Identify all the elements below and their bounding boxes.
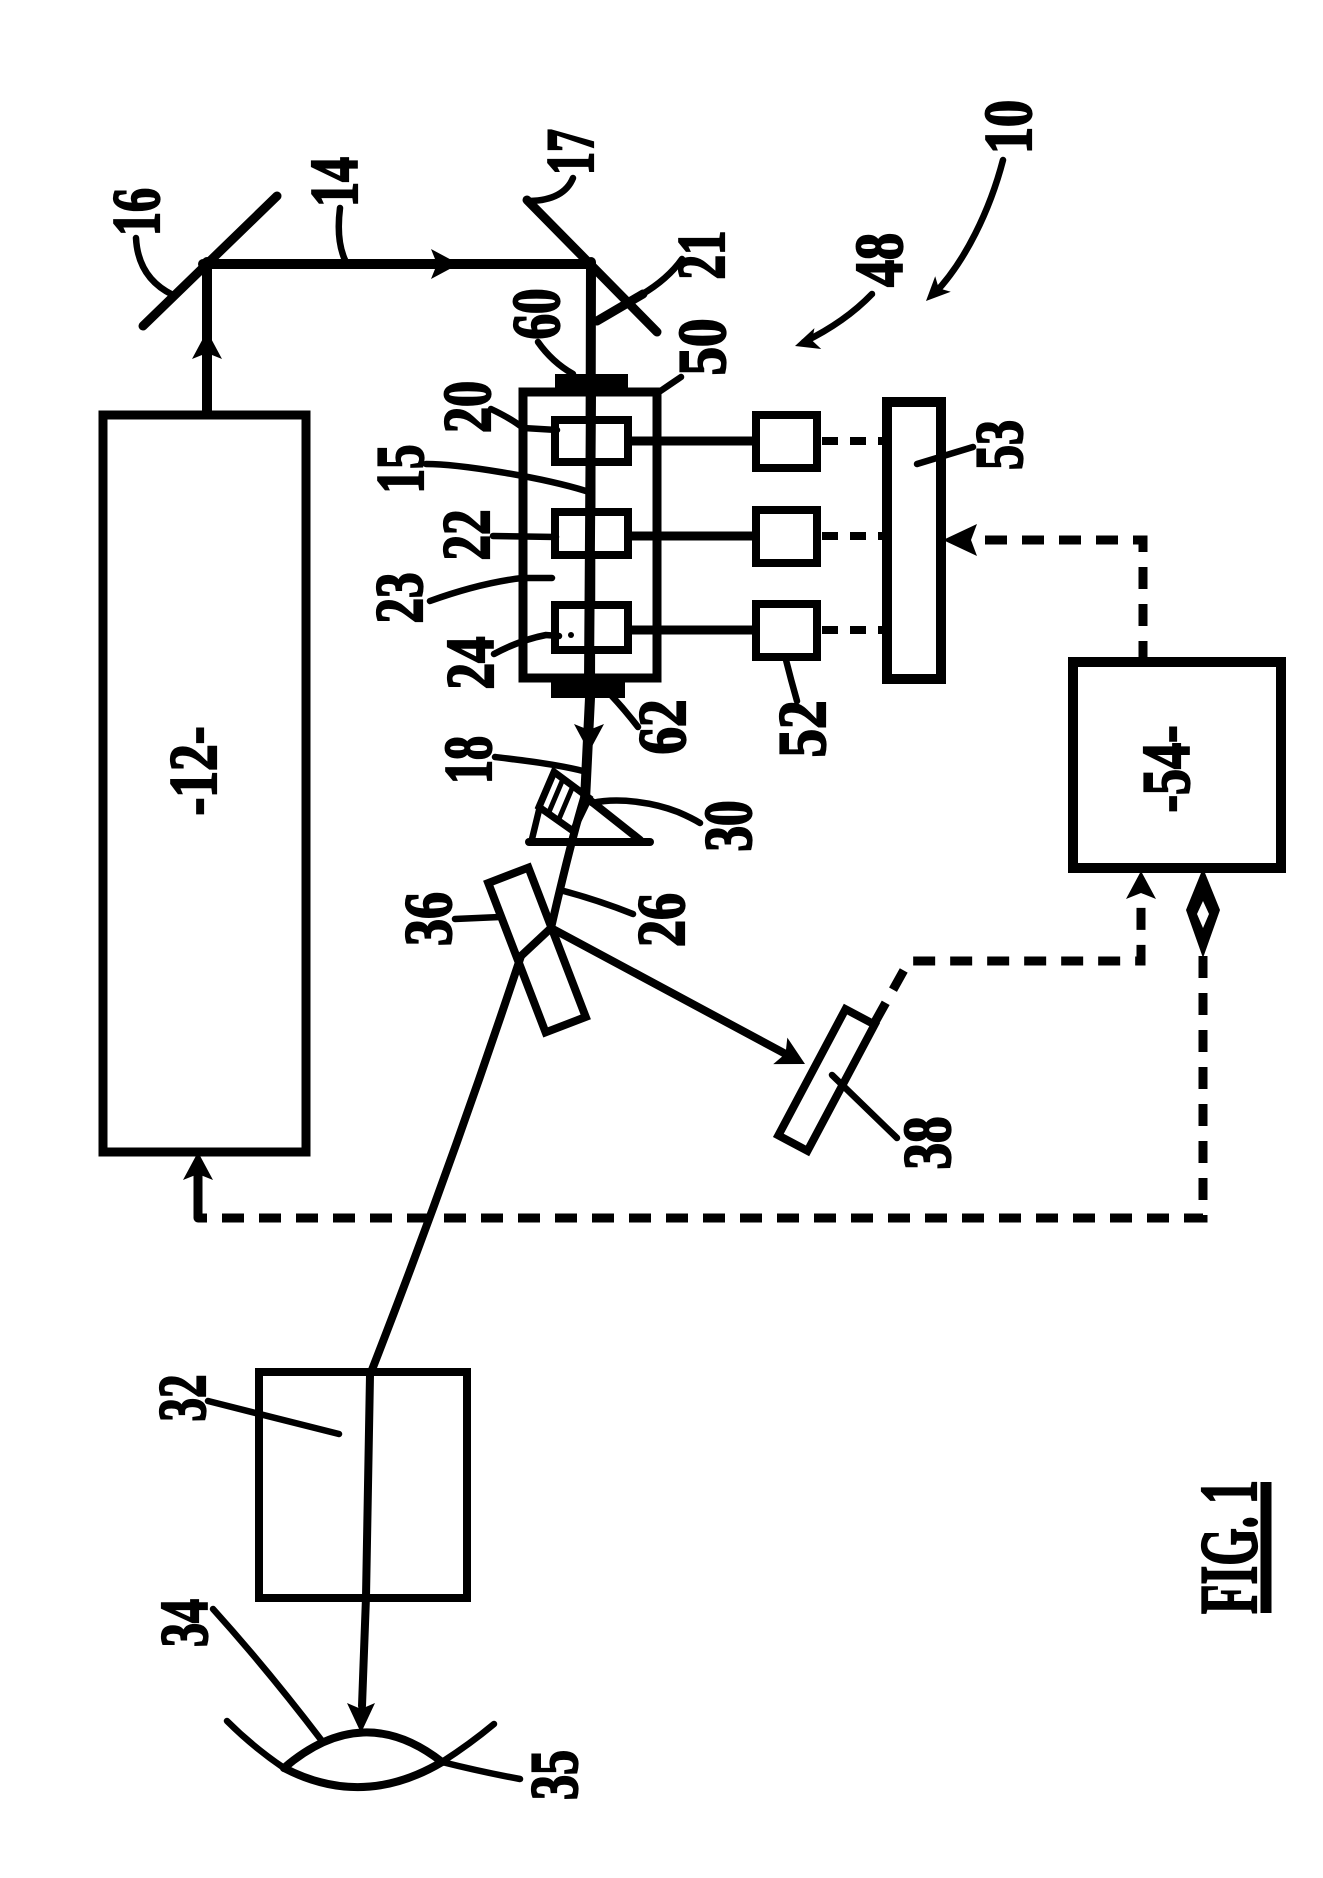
controller bar 53 [887, 402, 941, 679]
wire: horizontal beam 14 from mirror 16 to mirror 17 [203, 259, 591, 269]
svg-text:23: 23 [361, 573, 437, 624]
leader 62 [610, 694, 638, 727]
wire: arrow into laser 12 bottom [194, 1163, 203, 1218]
svg-text:38: 38 [889, 1117, 965, 1170]
svg-text:48: 48 [841, 233, 917, 287]
mirror 21 [597, 294, 643, 321]
leader 52 [786, 660, 797, 701]
optics box 32 [259, 1372, 467, 1598]
detector 38 [778, 1009, 874, 1151]
eye 35: lower lid arc [284, 1762, 442, 1787]
wire: beam through cells [589, 392, 591, 681]
leader 30 [592, 801, 700, 823]
svg-text:17: 17 [532, 129, 608, 175]
leader 36 [455, 917, 500, 919]
driver box (top) of 52 [756, 415, 817, 468]
svg-text:-54-: -54- [1128, 726, 1204, 813]
wire: beam exits assembly downward [574, 724, 604, 752]
svg-text:50: 50 [664, 319, 740, 376]
driver box (bottom) of 52 [756, 604, 817, 657]
mirror 17 [527, 200, 657, 332]
gain cell 22 [555, 512, 628, 555]
leader 15 [426, 464, 586, 491]
leader 14 [339, 208, 345, 260]
svg-text:10: 10 [970, 100, 1046, 154]
leader 16 [136, 238, 173, 295]
svg-text:FIG. 1: FIG. 1 [1183, 1480, 1274, 1614]
leader 34 [213, 1609, 322, 1741]
diamond double arrow at 54 bottom [1186, 868, 1220, 958]
leader 32 [208, 1401, 339, 1434]
wire: cell 20 drive line [629, 437, 756, 446]
svg-text:30: 30 [690, 801, 766, 852]
wire: beam down through laser head assembly [585, 262, 591, 800]
wire: beam 36 down to optics 32 [370, 956, 521, 1375]
leader 24 [494, 635, 559, 654]
leader 17 [530, 178, 573, 201]
prism mount left strut [532, 806, 540, 839]
leader arrow 48 [804, 294, 872, 342]
svg-text:24: 24 [432, 637, 508, 690]
dashed bidirectional line 54 to laser 12 [198, 956, 1203, 1218]
right canthus stroke [442, 1724, 494, 1762]
svg-text:14: 14 [296, 157, 372, 207]
wire: beam to eye [362, 1597, 366, 1706]
leader 22 [493, 536, 556, 537]
leader 26 [560, 890, 633, 914]
leader arrow 10 [934, 160, 1003, 294]
wire: cell 24 drive line [629, 626, 756, 635]
left canthus stroke [227, 1721, 284, 1768]
wire: beam 36 to detector 38 [551, 928, 795, 1059]
wire: cell 22 drive line [629, 532, 756, 541]
svg-text:52: 52 [764, 701, 840, 758]
prism 18 [539, 772, 589, 831]
leader 20 [491, 409, 557, 430]
mirror coating 60 (black bar top) [555, 374, 628, 391]
svg-text:15: 15 [362, 445, 438, 494]
leader 38 [832, 1075, 897, 1138]
eye 35: upper lid arc (cornea 34) [284, 1732, 442, 1768]
wire: beam inside 36 [521, 928, 551, 956]
dashed control line bottom driver to 53 [822, 626, 886, 634]
computer box 54 [1073, 662, 1281, 868]
svg-text:-12-: -12- [155, 727, 231, 816]
svg-text:16: 16 [98, 188, 174, 236]
gain cell 20 [555, 420, 628, 462]
svg-text:34: 34 [146, 1599, 222, 1647]
prism hatch [549, 779, 573, 819]
mirror 16 [143, 196, 277, 326]
beamsplitter 36 [488, 868, 585, 1033]
leader 53 [917, 447, 973, 464]
laser box 12 [103, 415, 306, 1152]
dashed control line middle driver to 53 [822, 532, 886, 540]
prism mount base 30 [529, 838, 650, 846]
dashed line detector 38 to 54 [875, 880, 1141, 1022]
caption underline [1261, 1482, 1272, 1613]
laser head assembly 15 (resonator housing) [523, 392, 657, 678]
mirror coating 62 (black bar bottom) [551, 681, 625, 698]
svg-text:26: 26 [623, 893, 699, 947]
leader 23 [430, 578, 552, 601]
wire: beam through optics 32 [366, 1375, 370, 1597]
gain cell 24 [555, 605, 628, 650]
prism mount hypotenuse [587, 798, 640, 840]
dot in cell 24 [568, 632, 574, 638]
svg-text:60: 60 [498, 289, 574, 340]
dashed line 54 to 53 with arrow [985, 540, 1143, 660]
svg-text:35: 35 [516, 1750, 592, 1800]
leader 35 [442, 1762, 520, 1779]
leader 60 [538, 342, 573, 374]
wire: beam from laser 12 up to mirror 16 [202, 262, 212, 415]
driver box (middle) of 52 [756, 510, 817, 563]
wire: beam prism to beamsplitter 36 [551, 798, 584, 928]
dashed control line top driver to 53 [822, 437, 886, 445]
leader 50 [659, 377, 681, 392]
leader 18 [495, 757, 583, 771]
leader 21 [641, 259, 682, 295]
